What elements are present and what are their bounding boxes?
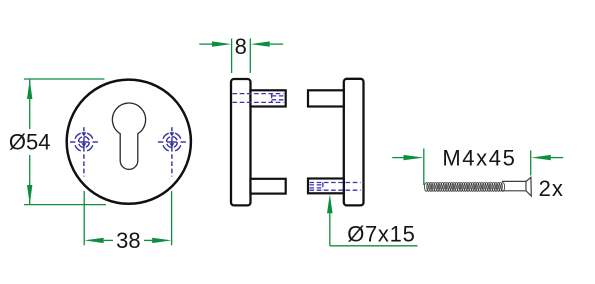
hidden hole lines left part — [233, 94, 286, 103]
svg-text:M4x45: M4x45 — [442, 146, 516, 171]
screw hole symbol right — [158, 127, 186, 151]
side view left part bottom boss — [251, 179, 286, 194]
screw thread — [424, 183, 504, 192]
front view plate (circle) — [67, 80, 191, 204]
dimension M4x45 — [392, 149, 563, 186]
side view right part plate — [344, 79, 364, 206]
dimension D54 — [24, 79, 106, 205]
leader D7x15 — [330, 205, 418, 246]
keyhole cutout — [112, 103, 145, 169]
side view right part top boss — [308, 90, 344, 106]
side view left part plate — [231, 79, 251, 205]
screw hole centerline left — [83, 147, 85, 177]
svg-text:2x: 2x — [539, 176, 564, 201]
dimension 8 — [199, 39, 283, 74]
screw hole centerline right — [171, 147, 173, 177]
svg-text:Ø7x15: Ø7x15 — [347, 221, 415, 246]
dimension 38 — [84, 191, 171, 245]
svg-text:8: 8 — [235, 34, 247, 59]
screw shank — [502, 181, 526, 190]
screw hole symbol left — [70, 127, 98, 151]
side view left part top boss — [251, 90, 286, 106]
svg-text:Ø54: Ø54 — [9, 130, 51, 155]
screw head — [526, 177, 531, 196]
hidden hole lines right part — [310, 183, 361, 191]
side view right part bottom boss — [308, 179, 344, 194]
svg-text:38: 38 — [116, 228, 140, 253]
